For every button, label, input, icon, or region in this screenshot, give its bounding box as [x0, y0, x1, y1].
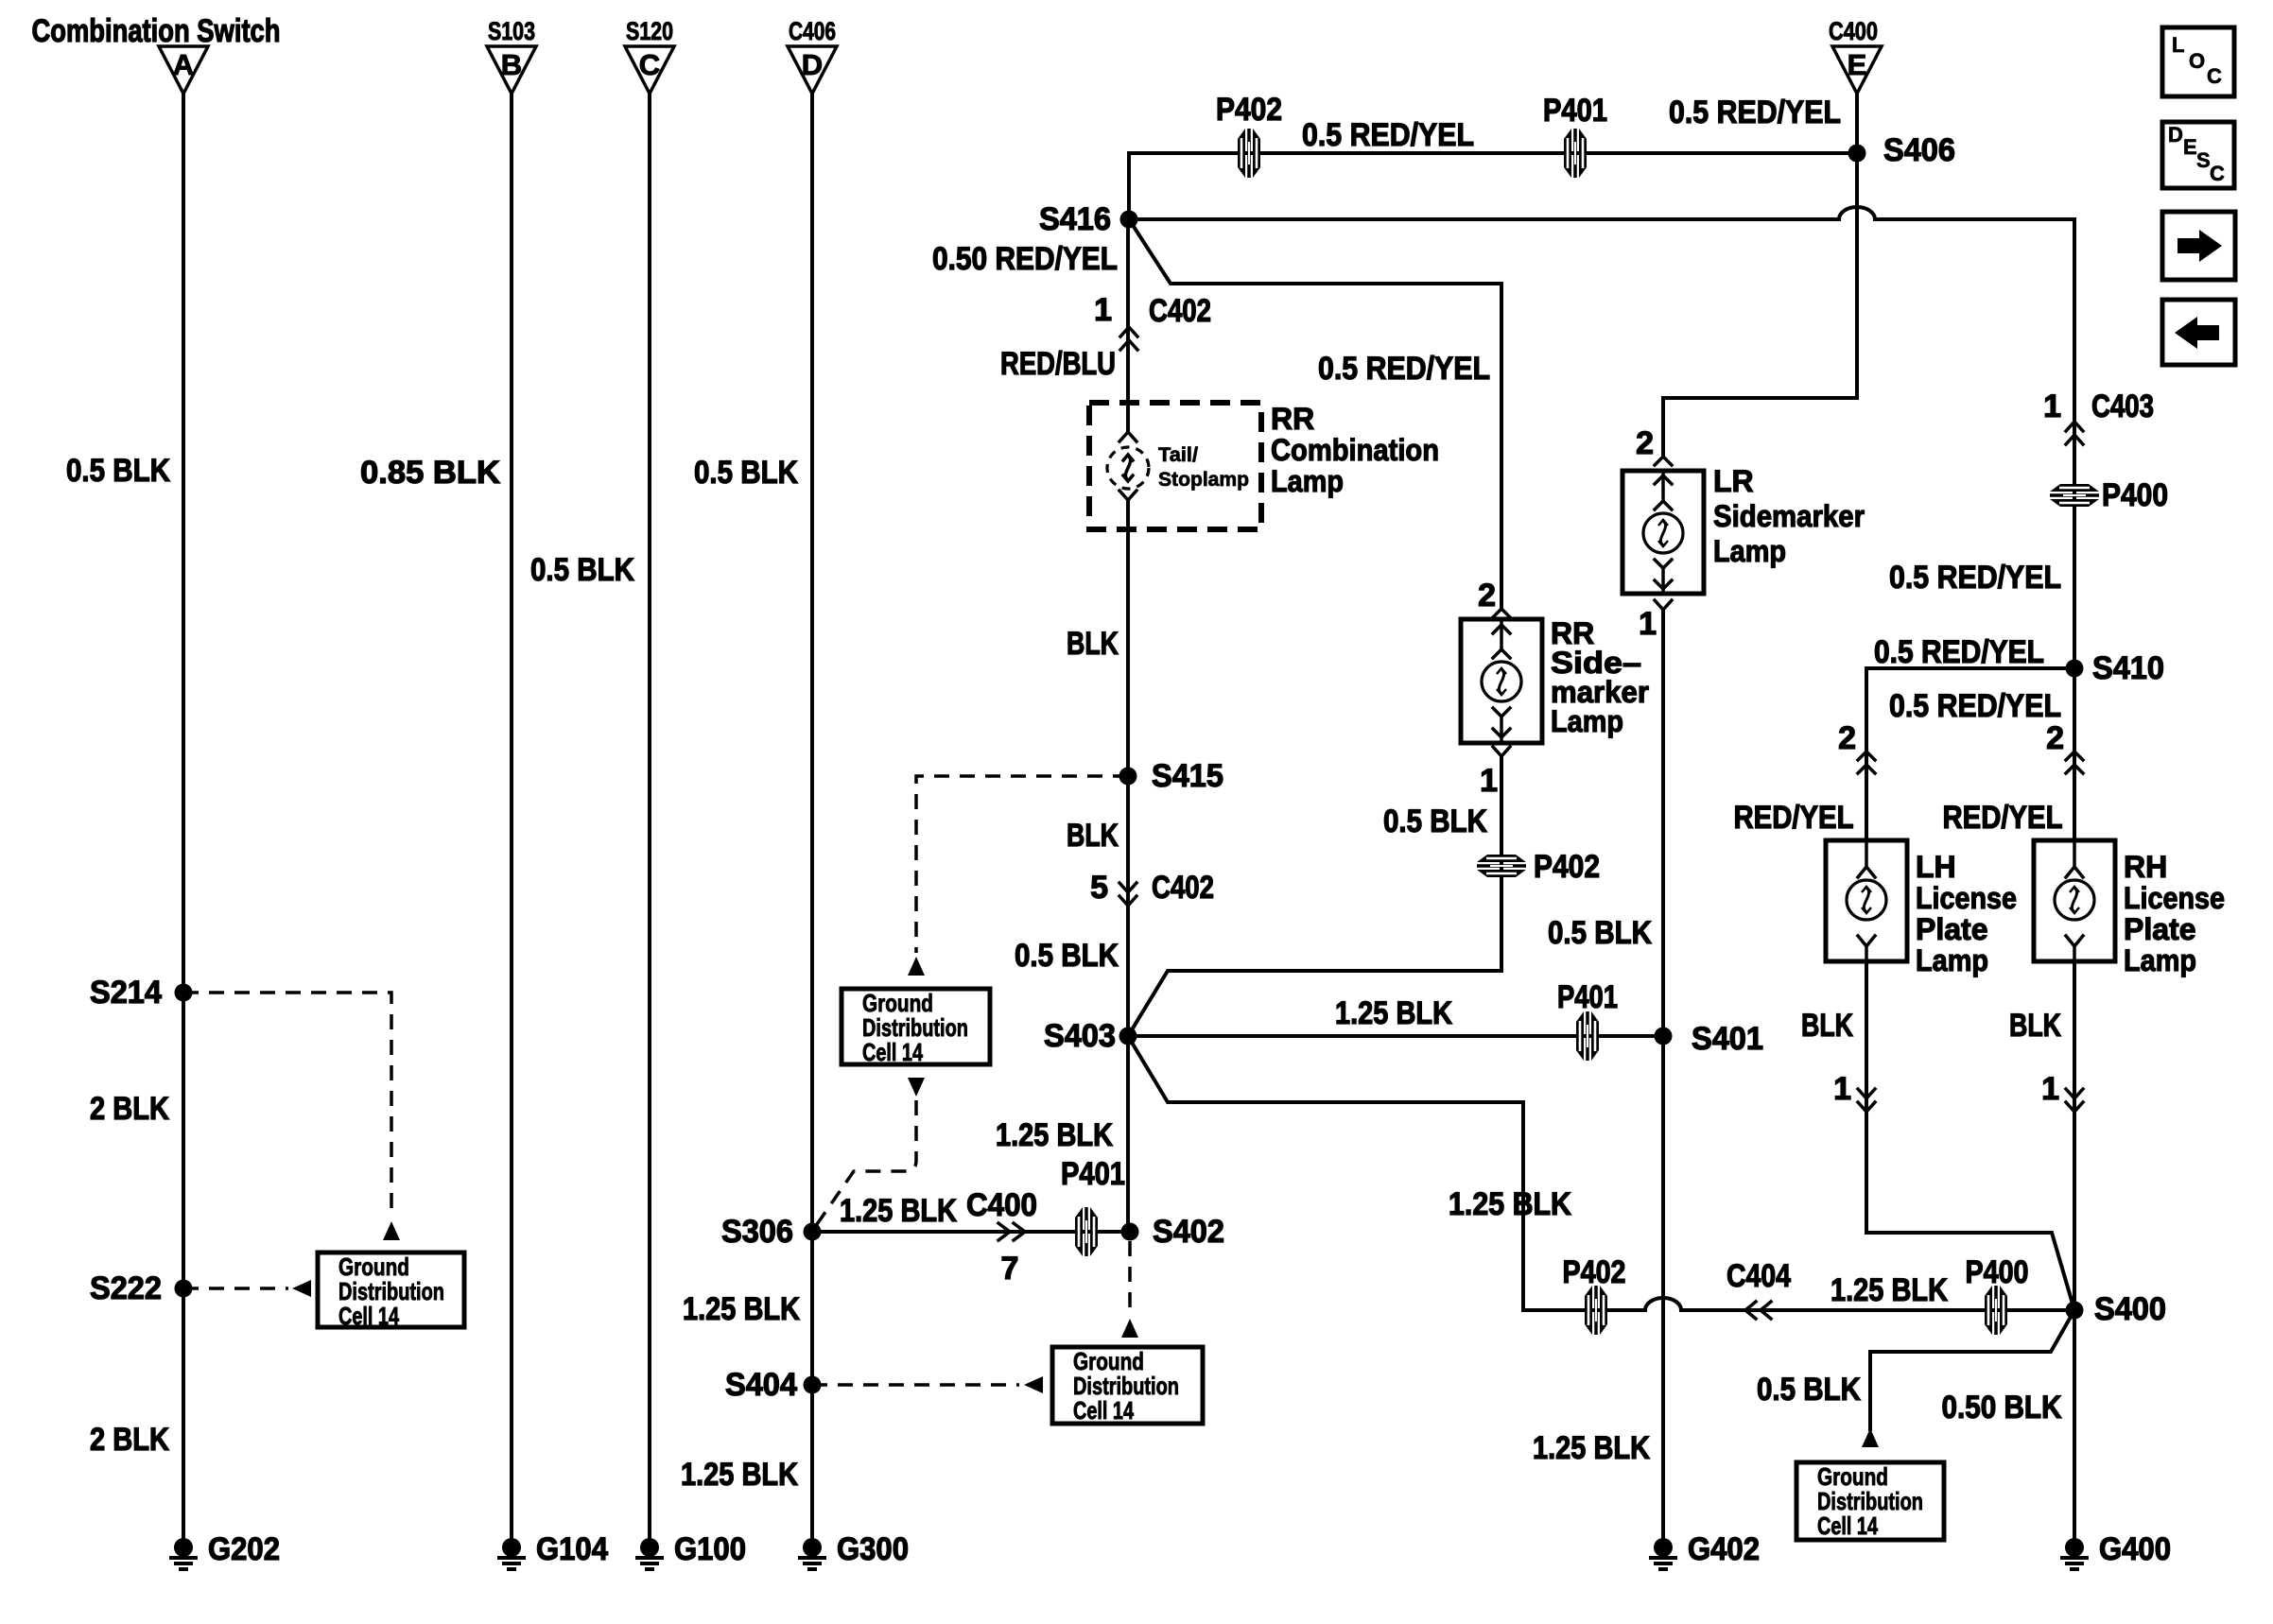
dashed reference wire from S415: [916, 776, 1128, 953]
svg-text:BLK: BLK: [1067, 626, 1119, 662]
svg-text:1.25 BLK: 1.25 BLK: [996, 1117, 1113, 1153]
svg-text:BLK: BLK: [2009, 1008, 2061, 1044]
svg-text:0.50 BLK: 0.50 BLK: [1942, 1390, 2062, 1425]
connector triangle D (C406): [788, 17, 837, 94]
svg-text:P402: P402: [1216, 92, 1282, 128]
wire BLK from RR combination lamp down to S402 (main center column): [1126, 500, 1130, 1232]
wire S403 to P401 to S401: [1128, 1034, 1663, 1038]
svg-text:0.5 BLK: 0.5 BLK: [530, 552, 634, 588]
svg-text:C400: C400: [1829, 17, 1878, 45]
wire S306 to S402: [812, 1230, 1128, 1234]
svg-text:B: B: [501, 48, 522, 81]
svg-text:Lamp: Lamp: [1271, 464, 1344, 498]
svg-text:1.25 BLK: 1.25 BLK: [840, 1193, 957, 1229]
svg-text:BLK: BLK: [1801, 1008, 1853, 1044]
svg-text:2: 2: [1838, 720, 1856, 756]
svg-text:0.50 RED/YEL: 0.50 RED/YEL: [932, 241, 1118, 277]
svg-text:Combination: Combination: [1271, 433, 1439, 467]
svg-text:G104: G104: [536, 1531, 608, 1567]
svg-text:Lamp: Lamp: [2124, 943, 2196, 977]
connector triangle C (S120): [625, 17, 674, 94]
ground G400: [2060, 1531, 2171, 1569]
svg-text:S120: S120: [626, 17, 673, 45]
svg-text:C403: C403: [2091, 389, 2154, 424]
RR Side-marker Lamp: [1461, 616, 1649, 743]
RR sidemarker pin 1 chevron: [1480, 747, 1510, 799]
LR sidemarker pin 1 chevron: [1639, 600, 1672, 642]
dashed reference wire from S404: [812, 1383, 1019, 1387]
svg-text:S400: S400: [2094, 1291, 2166, 1327]
node S401: [1655, 1028, 1673, 1045]
dashed reference wire from S222: [183, 1287, 288, 1290]
inline connector P402 (bottom): [1563, 1254, 1626, 1335]
svg-text:S415: S415: [1152, 758, 1223, 794]
node S410: [2066, 660, 2084, 678]
wire column D: [810, 94, 814, 1539]
svg-text:BLK: BLK: [1067, 818, 1119, 854]
svg-text:S410: S410: [2092, 650, 2164, 686]
svg-text:1: 1: [1094, 292, 1112, 328]
svg-text:S214: S214: [90, 975, 162, 1011]
wire S416 horizontal with hop, corner down right side to RH column: [1129, 207, 2074, 840]
svg-text:E: E: [2183, 135, 2197, 159]
connector triangle A (Combination Switch): [32, 13, 281, 94]
node S406: [1848, 145, 1866, 163]
svg-text:License: License: [1916, 881, 2017, 915]
inline connector P401 (top wire): [1564, 129, 1587, 178]
wire top feed from corner to S406: [1129, 153, 1857, 219]
ground distribution cell 14 box (S400): [1796, 1462, 1944, 1540]
svg-text:P401: P401: [1061, 1156, 1125, 1192]
svg-text:G400: G400: [2099, 1531, 2171, 1567]
LH license pin 2 chevrons: [1838, 720, 1875, 773]
tail/stoplamp bulb connector chevron (bottom): [1119, 491, 1136, 500]
svg-text:C: C: [2210, 162, 2225, 185]
tail/stoplamp bulb connector chevron (top): [1119, 432, 1136, 441]
svg-text:1.25 BLK: 1.25 BLK: [681, 1457, 798, 1493]
svg-text:1: 1: [1833, 1071, 1851, 1107]
svg-text:Lamp: Lamp: [1551, 704, 1623, 738]
svg-text:G402: G402: [1688, 1531, 1760, 1567]
svg-text:0.5 BLK: 0.5 BLK: [66, 453, 170, 489]
svg-text:0.5 RED/YEL: 0.5 RED/YEL: [1874, 634, 2044, 670]
svg-text:0.5 RED/YEL: 0.5 RED/YEL: [1889, 688, 2061, 724]
svg-text:D: D: [2168, 123, 2183, 147]
reference arrow (S415): [908, 957, 925, 976]
node S400: [2066, 1302, 2084, 1320]
svg-text:Stoplamp: Stoplamp: [1158, 469, 1249, 491]
dashed reference wire from box down to S306: [815, 1100, 916, 1227]
svg-text:P401: P401: [1557, 979, 1618, 1015]
svg-text:1: 1: [2043, 389, 2061, 424]
svg-text:C400: C400: [966, 1187, 1037, 1223]
svg-text:2: 2: [1636, 425, 1654, 461]
wire RED/BLU vertical (main center column upper part): [1126, 219, 1130, 432]
connector C402 pin 1: [1094, 292, 1211, 350]
wire S403 lower branch to S400 with hop over G402 column: [1128, 1036, 2074, 1310]
right arrow legend box: [2162, 212, 2235, 280]
LOC legend box: [2162, 27, 2234, 96]
svg-text:C406: C406: [789, 17, 836, 45]
wire RH license lamp down to G400: [2073, 961, 2076, 1539]
dashed reference wire from S402: [1128, 1241, 1132, 1316]
ground distribution cell 14 box (S415/S306): [842, 989, 990, 1066]
connector triangle B (S103): [487, 17, 536, 94]
inline connector P401 (S306 wire): [1075, 1207, 1098, 1256]
svg-text:Sidemarker: Sidemarker: [1713, 499, 1865, 533]
svg-text:Cell 14: Cell 14: [338, 1302, 399, 1330]
svg-text:S401: S401: [1692, 1021, 1763, 1057]
reference arrow into ground distribution box (S400): [1862, 1428, 1879, 1447]
connector triangle E (C400): [1829, 17, 1882, 94]
inline connector P400 (RH feed): [2050, 477, 2168, 513]
svg-text:1: 1: [1480, 763, 1498, 799]
svg-text:1.25 BLK: 1.25 BLK: [683, 1291, 800, 1327]
svg-text:2 BLK: 2 BLK: [90, 1091, 169, 1127]
dashed reference wire from S214: [183, 993, 391, 1218]
svg-text:0.5 RED/YEL: 0.5 RED/YEL: [1669, 95, 1841, 130]
svg-text:Plate: Plate: [1916, 912, 1987, 946]
node S306: [804, 1223, 822, 1241]
svg-text:P400: P400: [1966, 1254, 2029, 1290]
svg-text:E: E: [1848, 48, 1867, 81]
svg-text:License: License: [2124, 881, 2225, 915]
svg-text:G300: G300: [837, 1531, 909, 1567]
LH License Plate Lamp: [1826, 840, 2017, 977]
inline connector P400 (bottom): [1966, 1254, 2029, 1335]
svg-text:Combination Switch: Combination Switch: [32, 13, 281, 49]
tail/stoplamp bulb (dashed): [1107, 444, 1249, 491]
svg-text:C404: C404: [1726, 1258, 1791, 1294]
svg-text:S404: S404: [725, 1367, 797, 1403]
reference arrow (S222): [292, 1280, 311, 1297]
node S404: [804, 1376, 822, 1394]
RH License Plate Lamp: [2034, 840, 2225, 977]
reference arrow below box (S306): [908, 1078, 925, 1097]
wire column C: [648, 94, 651, 1539]
svg-text:S103: S103: [488, 17, 535, 45]
svg-text:Cell 14: Cell 14: [1073, 1396, 1134, 1425]
svg-text:Plate: Plate: [2124, 912, 2195, 946]
svg-text:1: 1: [2041, 1071, 2059, 1107]
node S415: [1119, 768, 1137, 786]
LR sidemarker pin 2 chevron: [1636, 425, 1672, 465]
LR Sidemarker Lamp: [1622, 464, 1865, 594]
connector C402 pin 5: [1090, 870, 1214, 906]
inline connector P402 (top wire): [1238, 129, 1260, 178]
svg-text:0.85 BLK: 0.85 BLK: [360, 455, 500, 491]
inline connector P401 (S403-S401 wire): [1576, 1011, 1599, 1061]
ground G300: [798, 1531, 909, 1569]
wire LH license lamp down and over to S400: [1866, 961, 2074, 1310]
ground distribution cell 14 box (S402/S404): [1052, 1347, 1203, 1425]
ground G104: [497, 1531, 608, 1569]
ground distribution cell 14 box (S222/S214): [318, 1253, 464, 1330]
svg-text:P402: P402: [1563, 1254, 1626, 1290]
svg-text:S306: S306: [721, 1214, 793, 1250]
wire RR sidemarker to P402 to S403: [1128, 756, 1501, 1036]
ground G100: [635, 1531, 746, 1569]
svg-text:A: A: [173, 48, 194, 81]
svg-text:0.5 RED/YEL: 0.5 RED/YEL: [1318, 351, 1490, 387]
RH license pin 2 chevrons: [2046, 720, 2083, 773]
svg-text:O: O: [2189, 49, 2205, 73]
svg-text:LR: LR: [1713, 464, 1754, 498]
svg-text:1.25 BLK: 1.25 BLK: [1449, 1186, 1571, 1222]
svg-text:Tail/: Tail/: [1158, 444, 1198, 466]
svg-text:P402: P402: [1534, 849, 1600, 885]
svg-text:C402: C402: [1152, 870, 1214, 906]
node S416: [1120, 211, 1138, 229]
svg-text:C402: C402: [1149, 293, 1211, 329]
svg-text:7: 7: [1001, 1251, 1019, 1287]
ground G402: [1649, 1531, 1760, 1569]
reference arrow (S214): [383, 1221, 400, 1240]
svg-text:RED/YEL: RED/YEL: [1734, 800, 1854, 836]
svg-text:Cell 14: Cell 14: [862, 1038, 923, 1066]
svg-text:1: 1: [1639, 606, 1657, 642]
svg-text:0.5 BLK: 0.5 BLK: [694, 455, 798, 491]
svg-text:D: D: [802, 48, 823, 81]
svg-text:0.5 RED/YEL: 0.5 RED/YEL: [1889, 560, 2061, 596]
wire LR sidemarker down to G402: [1661, 610, 1665, 1539]
reference arrow (S402): [1121, 1319, 1138, 1338]
ground G202: [169, 1531, 280, 1569]
svg-text:G100: G100: [674, 1531, 746, 1567]
svg-text:1.25 BLK: 1.25 BLK: [1335, 995, 1452, 1031]
svg-text:0.5 BLK: 0.5 BLK: [1757, 1372, 1861, 1408]
svg-text:C: C: [639, 48, 660, 81]
svg-text:P401: P401: [1543, 93, 1607, 129]
svg-text:S406: S406: [1883, 132, 1955, 168]
left arrow legend box: [2162, 300, 2235, 365]
svg-text:C: C: [2207, 64, 2222, 88]
svg-text:2 BLK: 2 BLK: [90, 1422, 169, 1458]
connector C400 pin 7 chevrons: [966, 1187, 1037, 1287]
svg-text:2: 2: [1478, 578, 1496, 613]
svg-text:1.25 BLK: 1.25 BLK: [1533, 1430, 1650, 1466]
svg-text:LH: LH: [1916, 850, 1956, 884]
svg-text:P400: P400: [2102, 477, 2168, 513]
svg-text:Lamp: Lamp: [1713, 534, 1786, 568]
svg-text:0.5 BLK: 0.5 BLK: [1548, 915, 1652, 951]
wire column A: [182, 94, 185, 1539]
svg-text:L: L: [2172, 33, 2184, 57]
wire from triangle E down then left to LR sidemarker lamp: [1663, 94, 1857, 457]
node S403: [1119, 1028, 1137, 1045]
svg-text:0.5 BLK: 0.5 BLK: [1383, 803, 1487, 839]
svg-text:RED/YEL: RED/YEL: [1943, 800, 2063, 836]
wire S410 to LH license lamp: [1866, 668, 2074, 840]
DESC legend box: [2162, 122, 2234, 188]
connector C403 pin 1: [2043, 389, 2154, 444]
svg-text:S222: S222: [90, 1270, 162, 1306]
wire diagonal from S416 to RR sidemarker feed: [1129, 219, 1501, 609]
connector C404 chevrons: [1726, 1258, 1791, 1319]
svg-text:RH: RH: [2124, 850, 2167, 884]
wire S400 branch down-left to ground distribution reference: [1870, 1310, 2074, 1429]
svg-text:S403: S403: [1044, 1018, 1116, 1054]
svg-text:S: S: [2196, 148, 2211, 172]
svg-text:G202: G202: [208, 1531, 280, 1567]
RR Combination Lamp dashed box: [1089, 402, 1439, 529]
inline connector P402 (RR sidemarker): [1477, 849, 1600, 885]
svg-text:RR: RR: [1271, 402, 1314, 436]
svg-text:0.5 RED/YEL: 0.5 RED/YEL: [1302, 117, 1474, 153]
RH license pin 1 chevrons: [2041, 1071, 2083, 1112]
node S402: [1121, 1223, 1139, 1241]
svg-text:S416: S416: [1039, 201, 1111, 237]
reference arrow (S404): [1024, 1376, 1043, 1393]
LH license pin 1 chevrons: [1833, 1071, 1875, 1112]
svg-text:RED/BLU: RED/BLU: [1000, 346, 1116, 382]
svg-text:5: 5: [1090, 870, 1108, 906]
svg-text:Lamp: Lamp: [1916, 943, 1988, 977]
node S222: [175, 1280, 193, 1298]
svg-text:2: 2: [2046, 720, 2064, 756]
svg-text:1.25 BLK: 1.25 BLK: [1831, 1272, 1948, 1308]
svg-text:0.5 BLK: 0.5 BLK: [1015, 938, 1119, 974]
svg-text:S402: S402: [1153, 1214, 1224, 1250]
node S214: [175, 984, 193, 1002]
svg-text:Cell 14: Cell 14: [1817, 1512, 1878, 1540]
wire column B: [510, 94, 513, 1539]
RR sidemarker pin 2 chevron: [1478, 578, 1510, 617]
